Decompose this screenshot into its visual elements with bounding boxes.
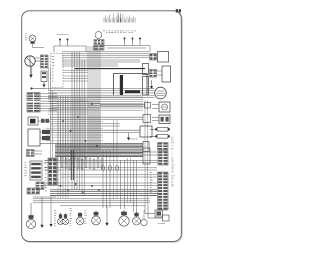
svg-text:Wiring diagram — 5J 535: Wiring diagram — 5J 535 — [171, 136, 175, 187]
